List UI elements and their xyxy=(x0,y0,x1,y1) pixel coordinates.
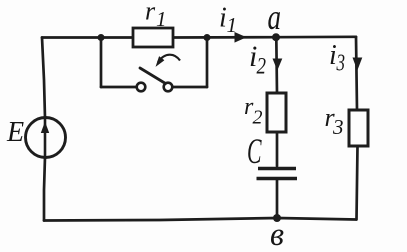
label r2 xyxy=(244,94,263,129)
svg-text:3: 3 xyxy=(332,115,344,139)
switch S closing arrow xyxy=(157,55,181,66)
svg-text:C: C xyxy=(247,131,262,171)
current arrow i1 xyxy=(235,32,247,43)
svg-text:3: 3 xyxy=(336,51,345,77)
wire r2 to capacitor xyxy=(276,132,279,166)
capacitor C top plate xyxy=(258,167,296,171)
voltage source E arrow xyxy=(41,118,49,157)
wire switch branch right vertical xyxy=(206,38,209,88)
label i3 xyxy=(329,40,345,77)
svg-text:1: 1 xyxy=(227,13,238,37)
wire left side upper xyxy=(42,38,45,119)
switch S lever xyxy=(140,68,166,84)
wire right side lower xyxy=(357,146,358,220)
wire switch branch right horizontal xyxy=(173,86,207,89)
label i2 xyxy=(249,40,266,79)
wire switch branch left horizontal xyxy=(101,86,136,89)
node junction dot left of r1 xyxy=(98,34,105,41)
wire capacitor to node b xyxy=(276,180,279,218)
capacitor C bottom plate xyxy=(257,177,298,181)
resistor r3 xyxy=(349,110,368,146)
svg-text:r: r xyxy=(145,0,156,26)
wire right side upper xyxy=(356,37,357,110)
node a junction dot xyxy=(272,33,280,41)
wire middle branch upper (node a down to r2) xyxy=(275,37,278,93)
svg-text:a: a xyxy=(268,0,282,37)
svg-text:2: 2 xyxy=(257,54,267,79)
svg-text:1: 1 xyxy=(156,7,167,31)
wire r1 to node a xyxy=(173,36,276,39)
resistor r2 xyxy=(267,93,286,132)
node junction dot right of r1 xyxy=(204,34,211,41)
svg-text:в: в xyxy=(270,217,284,252)
label r1 xyxy=(145,0,167,31)
wire switch branch left vertical xyxy=(100,38,103,88)
switch S contact left xyxy=(137,83,146,92)
label i1 xyxy=(219,3,237,38)
wire node a to top-right corner xyxy=(276,35,356,38)
resistor r1 xyxy=(133,28,173,47)
label r3 xyxy=(325,103,344,139)
svg-text:E: E xyxy=(6,117,24,148)
current arrow i3 xyxy=(353,58,363,71)
wire left side lower xyxy=(44,157,45,221)
wire top-left segment xyxy=(42,36,133,39)
switch S contact right xyxy=(164,83,173,92)
svg-text:2: 2 xyxy=(253,107,263,129)
wire bottom xyxy=(44,218,356,221)
voltage source E circle xyxy=(26,118,66,158)
current arrow i2 xyxy=(273,59,283,71)
node b junction dot xyxy=(273,214,281,222)
